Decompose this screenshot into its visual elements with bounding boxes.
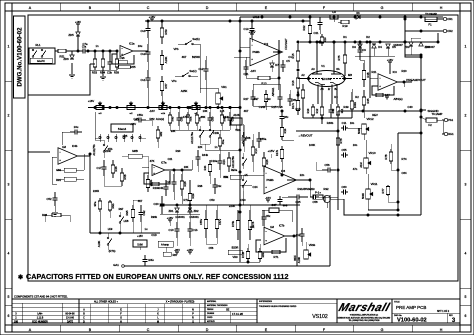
svg-text:C56: C56 <box>325 163 330 167</box>
svg-text:✱✱: ✱✱ <box>283 204 288 208</box>
svg-text:+15V: +15V <box>137 235 143 238</box>
svg-text:A2: A2 <box>301 73 305 77</box>
svg-text:13-2-96: 13-2-96 <box>66 317 75 319</box>
svg-text:C3b: C3b <box>107 71 112 75</box>
svg-text:R63: R63 <box>261 252 265 257</box>
svg-text:4: 4 <box>8 251 10 255</box>
svg-text:R17c: R17c <box>291 102 295 109</box>
svg-text:WFF: WFF <box>293 255 297 261</box>
svg-text:100K: 100K <box>309 143 315 147</box>
svg-text:L##+: L##+ <box>37 313 43 315</box>
svg-text:3: 3 <box>465 182 467 186</box>
svg-text:VR11: VR11 <box>371 182 378 186</box>
svg-text:C16b: C16b <box>213 131 220 135</box>
svg-text:A1M: A1M <box>359 162 363 167</box>
svg-text:VR12: VR12 <box>367 117 374 121</box>
svg-text:C55a: C55a <box>260 137 267 141</box>
svg-text:R59: R59 <box>114 71 119 75</box>
svg-text:COMPONENTS C57 AND 84 ( NOT FI: COMPONENTS C57 AND 84 ( NOT FITTED. <box>14 295 68 299</box>
svg-text:4: 4 <box>465 251 467 255</box>
svg-text:X = (THROUGH- PLATED): X = (THROUGH- PLATED) <box>166 301 195 304</box>
svg-text:+16V: +16V <box>88 99 95 103</box>
svg-text:C1D: C1D <box>151 233 156 237</box>
svg-text:C53: C53 <box>210 198 215 202</box>
svg-text:+26V: +26V <box>187 248 194 252</box>
svg-text:C36: C36 <box>120 56 125 60</box>
svg-text:ZD6: ZD6 <box>63 57 69 61</box>
svg-text:C52: C52 <box>47 197 52 201</box>
svg-text:-15V: -15V <box>265 196 271 200</box>
svg-text:D7: D7 <box>275 63 279 67</box>
svg-text:R29: R29 <box>191 193 195 198</box>
svg-text:G: G <box>381 6 384 10</box>
svg-text:R13: R13 <box>261 82 267 86</box>
svg-text:R48b: R48b <box>327 121 334 125</box>
svg-text:VS102: VS102 <box>312 314 328 320</box>
svg-text:220n: 220n <box>105 149 111 153</box>
svg-text:ECC83: ECC83 <box>322 77 332 81</box>
svg-text:C67: C67 <box>271 203 277 207</box>
svg-text:R48: R48 <box>114 166 118 171</box>
svg-text:IC3: IC3 <box>393 70 398 74</box>
svg-text:Sw(b): Sw(b) <box>192 37 199 41</box>
svg-text:V100-60-02: V100-60-02 <box>397 318 427 324</box>
svg-text:ZD2: ZD2 <box>193 209 199 213</box>
svg-text:R20: R20 <box>402 69 407 73</box>
svg-text:9Pa: 9Pa <box>93 201 97 206</box>
svg-text:IC6: IC6 <box>281 169 286 173</box>
svg-text:D1: D1 <box>343 35 347 39</box>
svg-text:R97: R97 <box>119 207 124 211</box>
svg-text:IC4b: IC4b <box>72 144 78 148</box>
svg-text:A3: A3 <box>311 67 315 71</box>
svg-text:R55: R55 <box>131 65 136 69</box>
svg-text:M: M <box>157 321 159 323</box>
svg-text:R33: R33 <box>266 97 271 101</box>
svg-text:C3a: C3a <box>82 47 87 49</box>
svg-text:R31: R31 <box>298 187 303 191</box>
svg-text:4K7: 4K7 <box>182 55 187 59</box>
svg-text:D: D <box>206 6 209 10</box>
svg-text:C1x: C1x <box>296 233 301 237</box>
svg-text:500K: 500K <box>361 193 365 199</box>
svg-text:C56: C56 <box>209 246 214 250</box>
svg-text:® MARSHALL AMPLIFICATION plc: ® MARSHALL AMPLIFICATION plc <box>350 314 378 317</box>
svg-text:C23: C23 <box>310 187 315 191</box>
svg-text:A-lamp: A-lamp <box>161 244 170 247</box>
svg-text:R5B: R5B <box>123 174 127 179</box>
svg-text:R14: R14 <box>254 148 258 153</box>
svg-text:→REVOUT: →REVOUT <box>298 134 313 138</box>
svg-text:10n: 10n <box>353 143 358 147</box>
svg-text:5.6M: 5.6M <box>137 243 142 246</box>
svg-text:C50: C50 <box>241 198 246 202</box>
svg-text:LK8: LK8 <box>124 219 129 223</box>
svg-text:+16V: +16V <box>75 21 81 24</box>
svg-text:D2: D2 <box>366 35 370 39</box>
svg-text:R75: R75 <box>337 55 341 60</box>
svg-text:GA-PC: GA-PC <box>37 60 45 63</box>
svg-text:C10: C10 <box>169 228 174 232</box>
svg-text:C68: C68 <box>246 136 251 140</box>
svg-text:2: 2 <box>8 113 10 117</box>
svg-text:IC7a: IC7a <box>161 161 167 165</box>
svg-text:R10: R10 <box>306 108 310 113</box>
svg-text:10n: 10n <box>350 121 355 125</box>
svg-text:22K: 22K <box>198 145 203 149</box>
svg-text:R17b: R17b <box>275 149 279 156</box>
svg-text:MATERIAL THICKNESS: MATERIAL THICKNESS <box>207 304 228 307</box>
svg-text:✱: ✱ <box>18 274 23 281</box>
svg-text:R30: R30 <box>176 149 181 153</box>
svg-text:DRAWN: DRAWN <box>207 312 215 315</box>
svg-text:C55c: C55c <box>137 113 144 117</box>
svg-text:ZD5: ZD5 <box>68 33 74 37</box>
svg-text:47n: 47n <box>353 167 358 171</box>
svg-text:100R: 100R <box>353 102 357 108</box>
svg-text:Cv1: Cv1 <box>141 78 146 82</box>
svg-text:C32: C32 <box>142 210 146 215</box>
svg-text:C: C <box>147 6 150 10</box>
svg-text:R96b: R96b <box>151 215 158 219</box>
svg-text:A10K: A10K <box>297 257 301 264</box>
svg-text:C50: C50 <box>211 116 215 121</box>
svg-text:PSMb: PSMb <box>252 50 260 54</box>
svg-text:R49: R49 <box>344 105 349 109</box>
svg-text:+16V: +16V <box>130 122 136 126</box>
svg-text:R22: R22 <box>302 25 306 30</box>
svg-text:C8: C8 <box>332 10 336 14</box>
svg-text:C45: C45 <box>134 117 139 121</box>
svg-text:C9: C9 <box>362 48 366 52</box>
svg-text:C55: C55 <box>342 148 347 152</box>
svg-text:10K: 10K <box>250 225 255 229</box>
svg-text:R78: R78 <box>339 138 343 143</box>
svg-text:ALL OTHER HOLES +: ALL OTHER HOLES + <box>94 301 119 304</box>
svg-text:R4B: R4B <box>366 72 370 77</box>
svg-text:A111(75b: A111(75b <box>92 144 96 156</box>
svg-text:Cv2: Cv2 <box>199 67 204 71</box>
svg-text:+15V: +15V <box>249 30 256 34</box>
svg-text:Pb1: Pb1 <box>448 118 453 122</box>
svg-text:R32: R32 <box>324 187 329 191</box>
svg-text:A10K: A10K <box>164 56 168 63</box>
svg-text:CR2: CR2 <box>447 29 453 33</box>
svg-text:1: 1 <box>465 44 467 48</box>
svg-text:C55v: C55v <box>199 218 203 225</box>
svg-text:R43b: R43b <box>223 115 230 119</box>
svg-text:C21: C21 <box>314 31 319 35</box>
svg-text:Cvb: Cvb <box>141 29 146 33</box>
svg-text:10K: 10K <box>203 109 208 113</box>
svg-text:C12: C12 <box>331 108 335 113</box>
svg-text:8A: 8A <box>336 67 339 71</box>
svg-text:47K: 47K <box>224 175 229 179</box>
svg-text:+15V: +15V <box>268 149 275 153</box>
svg-text:R77: R77 <box>381 188 385 193</box>
svg-text:10Ko: 10Ko <box>148 259 154 262</box>
svg-text:SE: SE <box>226 309 230 312</box>
svg-text:R53: R53 <box>92 71 97 75</box>
svg-text:R82: R82 <box>159 131 163 136</box>
svg-text:1N4001: 1N4001 <box>175 215 185 219</box>
svg-text:CR1: CR1 <box>447 17 453 21</box>
svg-text:ABSH1: ABSH1 <box>271 87 275 96</box>
svg-text:R15: R15 <box>296 107 301 111</box>
svg-text:220K: 220K <box>229 204 235 208</box>
svg-text:PREAMPOUT: PREAMPOUT <box>406 78 426 82</box>
svg-text:4K7: 4K7 <box>244 109 249 113</box>
svg-text:TOLERANCE UNLESS OTHERWISE STA: TOLERANCE UNLESS OTHERWISE STATED <box>259 305 297 308</box>
svg-text:Cv3: Cv3 <box>141 52 146 56</box>
svg-text:Marshall: Marshall <box>337 301 392 314</box>
svg-text:B20R: B20R <box>232 246 239 250</box>
svg-text:Sw(c): Sw(c) <box>189 69 196 73</box>
svg-text:C11: C11 <box>342 121 347 125</box>
svg-text:17.11.95: 17.11.95 <box>232 312 243 316</box>
svg-text:ABS(a): ABS(a) <box>393 97 402 101</box>
svg-text:C57v: C57v <box>218 218 222 225</box>
svg-text:C1b: C1b <box>193 228 198 232</box>
svg-text:X5a: X5a <box>221 139 225 144</box>
svg-text:R59: R59 <box>164 29 168 35</box>
svg-text:B250K: B250K <box>192 55 200 59</box>
svg-text:1n: 1n <box>96 44 99 48</box>
svg-text:C24: C24 <box>253 185 258 189</box>
svg-text:G: G <box>381 328 384 332</box>
svg-text:68K: 68K <box>201 115 206 119</box>
svg-text:APPRVD: APPRVD <box>207 320 215 323</box>
svg-text:54em4: 54em4 <box>118 127 127 131</box>
svg-text:C58: C58 <box>313 200 318 204</box>
svg-text:DWG.No.V100-60-02: DWG.No.V100-60-02 <box>18 27 24 87</box>
svg-text:5: 5 <box>8 295 10 299</box>
svg-text:500K: 500K <box>357 128 361 134</box>
svg-text:GA1: GA1 <box>113 263 119 267</box>
svg-text:IC7b: IC7b <box>279 223 285 227</box>
svg-text:29B: 29B <box>14 321 19 323</box>
svg-text:10u: 10u <box>138 44 143 48</box>
svg-text:R44b: R44b <box>202 153 209 157</box>
svg-text:-16V: -16V <box>250 69 256 73</box>
svg-text:R74: R74 <box>402 157 407 161</box>
svg-text:06-04-96: 06-04-96 <box>65 313 75 315</box>
svg-text:CHKD: CHKD <box>207 317 213 319</box>
svg-text:R15: R15 <box>291 53 295 58</box>
svg-text:CAPACITORS FITTED ON EUROPEAN: CAPACITORS FITTED ON EUROPEAN UNITS ONLY… <box>26 272 289 281</box>
svg-text:1K: 1K <box>244 173 247 177</box>
svg-text:22n: 22n <box>300 173 305 177</box>
svg-text:R19: R19 <box>342 24 348 28</box>
svg-text:R82: R82 <box>150 117 155 121</box>
svg-text:IC1a: IC1a <box>129 42 135 46</box>
svg-text:RH1: RH1 <box>448 132 454 136</box>
svg-text:F2: F2 <box>428 123 432 127</box>
svg-text:A111178a: A111178a <box>190 132 194 144</box>
svg-text:R25: R25 <box>272 105 277 109</box>
svg-text:R72b: R72b <box>241 251 245 258</box>
svg-text:D4: D4 <box>378 45 382 49</box>
svg-text:R16: R16 <box>296 91 300 96</box>
svg-text:C16a: C16a <box>211 159 218 163</box>
svg-text:2: 2 <box>465 113 467 117</box>
svg-text:MATERIAL: MATERIAL <box>207 300 216 303</box>
svg-text:4K7: 4K7 <box>138 199 143 203</box>
svg-text:FINISH: FINISH <box>207 309 214 311</box>
svg-text:A10K: A10K <box>97 241 101 248</box>
svg-text:47K: 47K <box>150 159 155 163</box>
svg-text:VR9: VR9 <box>232 255 238 259</box>
svg-text:1: 1 <box>8 44 10 48</box>
svg-text:R26: R26 <box>265 159 269 164</box>
svg-text:C21: C21 <box>168 157 173 161</box>
svg-text:3: 3 <box>8 182 10 186</box>
svg-text:T0.1AMP: T0.1AMP <box>432 112 443 116</box>
svg-text:R16: R16 <box>291 80 295 85</box>
svg-text:VR9b: VR9b <box>309 243 316 247</box>
svg-text:+16V: +16V <box>387 58 394 62</box>
svg-text:6: 6 <box>8 314 10 318</box>
svg-text:PRE AMP PCB: PRE AMP PCB <box>396 305 426 310</box>
svg-text:A25K: A25K <box>181 89 188 93</box>
svg-text:C4b: C4b <box>159 186 164 190</box>
svg-text:V1: V1 <box>321 64 325 68</box>
svg-text:R7B: R7B <box>384 154 388 159</box>
svg-text:C3x: C3x <box>217 184 222 188</box>
svg-text:R1b: R1b <box>283 128 287 133</box>
svg-text:(R7b): (R7b) <box>109 249 116 253</box>
svg-text:R3: R3 <box>334 95 338 99</box>
svg-text:VPb: VPb <box>173 47 179 51</box>
svg-text:33K: 33K <box>171 129 176 133</box>
svg-text:R9b: R9b <box>111 203 115 208</box>
svg-text:10K: 10K <box>184 165 189 169</box>
svg-text:LK9: LK9 <box>108 227 113 231</box>
svg-text:6: 6 <box>465 314 467 318</box>
svg-text:R72: R72 <box>184 198 189 202</box>
svg-text:C64: C64 <box>402 171 407 175</box>
svg-text:H: H <box>440 328 443 332</box>
svg-text:A11117Bb: A11117Bb <box>231 156 235 168</box>
svg-text:R57: R57 <box>164 83 168 89</box>
svg-text:C25: C25 <box>296 200 301 204</box>
svg-text:Zr: Zr <box>328 88 331 91</box>
svg-text:MB: MB <box>348 73 352 77</box>
svg-text:M6B: M6B <box>132 149 138 153</box>
svg-text:+16V: +16V <box>149 15 156 19</box>
svg-text:C17: C17 <box>97 166 102 170</box>
svg-text:DATE: DATE <box>67 320 73 323</box>
svg-text:R28: R28 <box>183 181 187 186</box>
svg-text:J: J <box>157 309 158 311</box>
svg-text:VR1: VR1 <box>221 85 227 89</box>
svg-text:SHT 1 OF 2: SHT 1 OF 2 <box>437 311 450 313</box>
svg-text:C20: C20 <box>154 202 159 206</box>
svg-text:+16V: +16V <box>167 216 174 220</box>
svg-text:-16V: -16V <box>149 109 155 113</box>
svg-text:C5x: C5x <box>266 214 271 218</box>
svg-text:C34b: C34b <box>259 105 266 109</box>
svg-text:VR10: VR10 <box>369 151 376 155</box>
svg-text:D: D <box>206 328 209 332</box>
svg-text:TITLE: TITLE <box>394 301 400 303</box>
svg-text:R67: R67 <box>173 253 178 257</box>
svg-text:RL1: RL1 <box>36 43 41 47</box>
svg-text:R75b: R75b <box>231 220 235 227</box>
svg-text:G: G <box>120 317 122 319</box>
svg-text:1n5: 1n5 <box>220 109 225 113</box>
svg-text:A10K: A10K <box>233 113 240 117</box>
svg-text:PSMb: PSMb <box>266 178 274 182</box>
svg-text:R40: R40 <box>171 116 175 121</box>
svg-text:R91: R91 <box>56 178 61 182</box>
svg-text:C7a: C7a <box>83 42 88 46</box>
svg-text:ZD3: ZD3 <box>405 45 410 49</box>
svg-text:C65: C65 <box>123 134 128 138</box>
svg-text:C40: C40 <box>408 105 413 109</box>
svg-text:REVa: REVa <box>231 169 238 172</box>
svg-text:1.11.B: 1.11.B <box>37 317 44 319</box>
svg-text:220R: 220R <box>93 189 99 193</box>
svg-text:ECO NUMBER: ECO NUMBER <box>32 321 48 323</box>
svg-text:R36: R36 <box>198 184 203 188</box>
svg-text:H: H <box>440 6 443 10</box>
svg-text:C: C <box>147 328 150 332</box>
svg-text:A1m(s): A1m(s) <box>156 117 164 121</box>
svg-text:C60: C60 <box>342 185 347 189</box>
svg-text:R12: R12 <box>315 108 319 113</box>
svg-text:REV: REV <box>372 113 378 117</box>
svg-text:IC2: IC2 <box>264 42 269 46</box>
svg-text:D3: D3 <box>352 45 356 49</box>
svg-text:1N4007: 1N4007 <box>393 43 403 47</box>
svg-text:ZD1: ZD1 <box>168 209 174 213</box>
svg-text:T0.8AMP: T0.8AMP <box>425 12 437 16</box>
svg-text:SUPERSEDES: SUPERSEDES <box>259 301 273 303</box>
svg-text:R95: R95 <box>125 210 129 215</box>
svg-text:P-1+: P-1+ <box>315 190 321 194</box>
svg-text:R45: R45 <box>366 98 370 103</box>
svg-text:1N4001: 1N4001 <box>189 215 199 219</box>
svg-text:R21: R21 <box>372 70 377 74</box>
svg-text:R24: R24 <box>222 159 226 164</box>
svg-text:-26V: -26V <box>174 248 180 252</box>
svg-text:R27: R27 <box>244 97 249 101</box>
svg-text:R44: R44 <box>203 165 207 170</box>
svg-text:1N4007: 1N4007 <box>425 45 435 49</box>
svg-text:F1: F1 <box>428 23 432 27</box>
svg-text:C8c: C8c <box>284 115 289 119</box>
svg-text:C5: C5 <box>286 59 290 63</box>
svg-text:VPs: VPs <box>172 79 178 83</box>
svg-text:470R: 470R <box>183 115 189 119</box>
svg-text:R2: R2 <box>355 95 359 99</box>
svg-text:R98b: R98b <box>149 179 153 186</box>
svg-text:10u: 10u <box>74 125 79 129</box>
svg-text:FXV1GIT: FXV1GIT <box>284 38 288 50</box>
svg-text:R71: R71 <box>274 255 279 259</box>
svg-text:5: 5 <box>465 295 467 299</box>
